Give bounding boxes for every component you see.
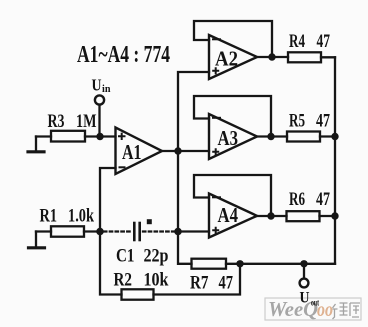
svg-text:U: U — [300, 290, 310, 307]
wire A4 output to R6 — [257, 215, 287, 217]
A4 plus mark — [212, 227, 219, 234]
node A4out junction dot — [267, 212, 274, 219]
svg-text:10k: 10k — [144, 270, 169, 291]
svg-text:A4: A4 — [218, 203, 239, 227]
node IN junction dot — [96, 133, 103, 140]
svg-text:47: 47 — [316, 189, 330, 210]
capacitor C1 dotted wire right — [143, 230, 174, 232]
watermark box — [265, 297, 361, 321]
svg-text:1M: 1M — [76, 111, 97, 132]
A3 minus mark — [212, 117, 221, 119]
node R5right junction dot — [331, 133, 338, 140]
svg-text:A1~A4 : 774: A1~A4 : 774 — [77, 42, 170, 68]
wire R3 to node IN to A1 + — [85, 135, 116, 137]
resistor R5 body — [287, 132, 320, 142]
op-amp A2 triangle — [209, 35, 257, 79]
wire R7 to output bus — [226, 263, 335, 265]
ground for R3 — [35, 137, 37, 152]
wire node FB down to R2 — [100, 232, 122, 295]
terminal Uin circle — [95, 95, 104, 104]
wire R6 to right bus — [320, 215, 336, 217]
svg-text:47: 47 — [317, 31, 331, 52]
wire central vertical node C down to R7 — [178, 232, 192, 264]
svg-text:A3: A3 — [218, 126, 239, 150]
terminal Uout circle — [300, 279, 309, 288]
wire R5 to right bus — [320, 135, 335, 137]
wire A1 inverting input down to node FB — [100, 168, 116, 232]
svg-text:22p: 22p — [144, 246, 169, 267]
svg-text:R2: R2 — [114, 270, 133, 291]
node Uout junction dot — [300, 260, 307, 267]
resistor R1 body — [51, 226, 84, 236]
svg-text:in: in — [102, 84, 111, 95]
node A2out junction dot — [268, 53, 275, 60]
wire node C to A4 + input — [178, 230, 209, 232]
node A3out junction dot — [267, 133, 274, 140]
svg-text:R1: R1 — [40, 206, 58, 227]
resistor R6 body — [287, 211, 320, 221]
A4 minus mark — [212, 196, 221, 198]
op-amp A3 feedback wire — [194, 96, 271, 137]
wire A3 output to R5 — [257, 135, 287, 137]
svg-text:47: 47 — [316, 111, 330, 132]
wire A1 output to node M to A3 + input — [162, 150, 209, 152]
wire R1 to node FB — [84, 230, 100, 232]
svg-text:R7: R7 — [190, 273, 209, 294]
A2 minus mark — [212, 38, 221, 40]
capacitor C1 polarity mark — [147, 219, 152, 224]
capacitor C1 dotted wire left — [104, 230, 132, 232]
A1 plus mark — [118, 133, 126, 140]
svg-text:R6: R6 — [289, 189, 305, 210]
wire central vertical node M up to A2 + input — [178, 72, 209, 151]
op-amp A4 feedback wire — [194, 175, 271, 216]
svg-text:1.0k: 1.0k — [68, 206, 94, 227]
svg-text:oo: oo — [317, 297, 333, 321]
wire Uout tap down — [303, 264, 305, 279]
svg-text:47: 47 — [219, 273, 234, 294]
wire R2 right up to output bus — [154, 264, 241, 295]
op-amp polarity marks — [118, 39, 221, 234]
node FB junction dot — [96, 228, 104, 236]
svg-text:R3: R3 — [48, 111, 65, 132]
resistor R7 body — [192, 259, 227, 269]
ground for R1 — [35, 232, 37, 248]
A3 plus mark — [212, 148, 219, 155]
node C junction dot — [174, 228, 182, 236]
wire central vertical node M down to node C — [177, 151, 179, 232]
A1 minus mark — [119, 166, 126, 168]
op-amp A4 triangle — [209, 194, 257, 238]
svg-text:A1: A1 — [122, 140, 142, 164]
A2 plus mark — [212, 67, 219, 74]
op-amp A1 triangle — [116, 128, 163, 175]
simplified 维库 glyphs — [333, 303, 361, 319]
wire ground to R1 — [36, 230, 51, 232]
capacitor C1 plates — [133, 223, 136, 240]
wire A2 output to R4 — [257, 56, 288, 58]
svg-text:out: out — [311, 298, 319, 308]
resistor R4 body — [288, 52, 321, 62]
right vertical bus wire — [334, 57, 336, 263]
svg-text:C1: C1 — [116, 246, 135, 267]
node R6right junction dot — [331, 212, 338, 219]
op-amp A3 triangle — [209, 114, 257, 159]
svg-text:U: U — [92, 76, 102, 95]
node R7right junction dot — [236, 260, 243, 267]
wire Uin down to node IN — [98, 105, 100, 137]
svg-text:R4: R4 — [289, 31, 305, 52]
svg-text:A2: A2 — [215, 47, 238, 71]
node M junction dot — [174, 147, 181, 154]
wire ground to R3 — [36, 135, 51, 137]
resistor R3 body — [51, 131, 85, 142]
wire R4 to right bus — [321, 56, 335, 58]
op-amp A2 feedback wire — [194, 21, 272, 57]
resistor R2 body — [122, 289, 154, 299]
svg-text:R5: R5 — [289, 111, 305, 132]
